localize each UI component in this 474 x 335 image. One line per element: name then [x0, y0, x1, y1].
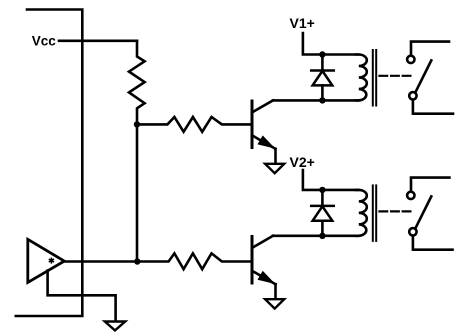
junction: D1 anode node	[319, 97, 325, 103]
transistor Q2 (NPN)	[252, 236, 276, 284]
asterisk mark inside U1	[49, 258, 54, 264]
wire: U1 output to Q2 base node	[64, 260, 137, 263]
wire: K1 NO terminal (bottom rail)	[413, 100, 453, 113]
wire: K1 common terminal (top rail)	[411, 42, 449, 56]
junction: U1 output / R3 node	[134, 258, 140, 264]
svg-text:V1+: V1+	[290, 15, 315, 31]
wire: link from R1 node down to buffer output node	[136, 124, 139, 261]
relay K2 coil	[356, 190, 367, 236]
wire: V1+ supply drop to node	[303, 33, 323, 55]
wire: Q1 emitter to ground	[274, 149, 277, 164]
ground: Q1 emitter ground	[265, 164, 284, 173]
relay K1 linkage (dashed)	[380, 75, 411, 77]
wire: V2+ node to K2 coil top	[322, 189, 358, 192]
junction: D1 cathode node	[319, 51, 325, 57]
wire: V2+ supply drop to node	[303, 170, 323, 190]
buffer U1 (driver, with asterisk)	[28, 239, 65, 282]
wire: Q1 collector rail to relay K1 coil bottom	[273, 99, 358, 102]
transistor Q1 (NPN)	[252, 100, 276, 148]
resistor R2 (horizontal, Q1 base)	[137, 117, 252, 132]
wire: left bus rail (top-left corner down to bottom-left)	[16, 10, 83, 317]
relay K1 core (double bar)	[373, 50, 376, 106]
ground: Q2 emitter ground	[265, 299, 284, 308]
relay K1 coil	[356, 55, 367, 101]
relay K1 contact: fixed terminal circle	[407, 56, 414, 63]
junction: D2 cathode node	[319, 187, 325, 193]
junction: D2 anode node	[319, 233, 325, 239]
relay K2 linkage (dashed)	[380, 210, 411, 212]
svg-text:V2+: V2+	[290, 154, 315, 170]
wire: Vcc rail to R1 top	[59, 39, 137, 42]
wire: Q2 emitter to ground	[274, 284, 277, 299]
wire: U1 feedback/return to ground	[48, 271, 116, 322]
relay K1 contact arm	[416, 60, 432, 92]
svg-text:Vcc: Vcc	[32, 33, 57, 48]
relay K1 contact: moving terminal circle	[409, 92, 416, 99]
diode D1 (flyback across K1 coil)	[311, 55, 334, 101]
relay K2 core (double bar)	[373, 185, 376, 241]
resistor R1 (vertical, Vcc pull-up)	[129, 41, 145, 125]
junction: node at R1 bottom / R2 left	[134, 121, 140, 127]
relay K2 contact: moving terminal circle	[409, 228, 416, 235]
ground: U1 return ground	[105, 322, 125, 331]
relay K2 contact: fixed terminal circle	[407, 192, 414, 199]
wire: K2 NO terminal (bottom rail)	[413, 236, 453, 249]
diode D2 (flyback across K2 coil)	[311, 190, 334, 236]
wire: K2 common terminal (top rail)	[411, 178, 449, 192]
wire: Q2 collector rail to relay K2 coil bottom	[273, 235, 358, 238]
wire: V1+ node to K1 coil top	[322, 53, 358, 56]
relay K2 contact arm	[416, 196, 432, 228]
resistor R3 (horizontal, Q2 base)	[137, 253, 252, 269]
